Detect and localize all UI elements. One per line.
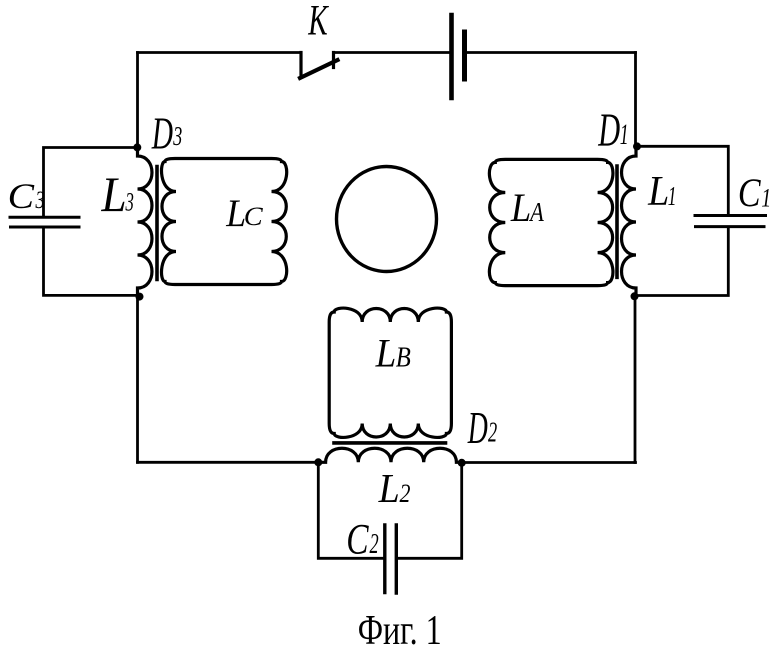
node L2 left (314, 458, 322, 466)
svg-text:L: L (375, 331, 397, 376)
winding Lc (162, 159, 287, 285)
wire right vertical bottom (634, 296, 637, 462)
label L3 (100, 168, 126, 222)
node D3 (133, 143, 141, 151)
wire C1 branch upper (637, 146, 728, 214)
svg-text:D: D (151, 109, 173, 159)
label L2 (378, 466, 400, 512)
svg-text:B: B (396, 341, 411, 373)
wire C3 branch upper (44, 148, 138, 217)
label C1 (738, 172, 762, 216)
winding Lb (329, 308, 451, 437)
label C3 (8, 176, 35, 216)
label D2 (467, 404, 488, 453)
wire C3 branch lower (44, 229, 140, 296)
wire bottom-right segment (462, 461, 636, 464)
battery (452, 15, 465, 98)
svg-text:2: 2 (488, 418, 497, 449)
svg-text:1: 1 (668, 181, 677, 211)
switch K (300, 53, 338, 79)
node L2 right (458, 459, 466, 467)
inductor L1 (622, 146, 636, 296)
svg-text:3: 3 (125, 187, 134, 217)
winding La (489, 159, 613, 285)
node bottom-left (136, 293, 144, 301)
label D1 (597, 104, 620, 156)
label Lb (375, 331, 397, 376)
inductor L3 (138, 148, 152, 298)
transformer core bottom (334, 441, 446, 445)
svg-text:C: C (8, 176, 35, 216)
svg-text:A: A (528, 198, 544, 228)
svg-text:L: L (378, 466, 400, 512)
wire right vertical top (634, 53, 637, 147)
svg-text:Фиг. 1: Фиг. 1 (358, 607, 442, 649)
label Lc (225, 191, 246, 235)
svg-text:C: C (346, 516, 369, 563)
svg-text:D: D (597, 104, 620, 156)
svg-text:L: L (647, 167, 669, 215)
svg-text:L: L (510, 186, 531, 230)
wire C2 branch right (397, 463, 462, 558)
label K (307, 0, 329, 44)
svg-text:C: C (244, 202, 264, 231)
label La (510, 186, 531, 230)
node bottom-right (631, 292, 639, 300)
svg-text:D: D (467, 404, 488, 453)
label C2 (346, 516, 369, 563)
inductor L2 (318, 448, 461, 462)
capacitor C1 (695, 216, 766, 227)
svg-text:L: L (100, 168, 126, 222)
wire top-left segment (138, 51, 302, 54)
wire battery-to-right (466, 51, 636, 54)
wire switch-to-battery (334, 51, 451, 54)
node D1 (633, 142, 641, 150)
capacitor C3 (10, 217, 79, 227)
svg-text:1: 1 (761, 184, 771, 213)
svg-text:2: 2 (400, 479, 411, 508)
label caption Fig.1 (358, 607, 442, 654)
wire C2 branch left (318, 462, 383, 558)
label L1 (647, 167, 669, 215)
svg-text:1: 1 (620, 120, 629, 151)
label D3 (151, 109, 173, 159)
svg-text:2: 2 (370, 529, 379, 560)
wire bottom-left segment (138, 461, 319, 464)
svg-text:C: C (738, 172, 762, 216)
rotor circle (337, 167, 437, 272)
wire C1 branch lower (635, 228, 729, 295)
svg-text:3: 3 (35, 185, 45, 214)
transformer core right (615, 166, 619, 277)
wire left vertical bottom (136, 297, 139, 462)
transformer core left (155, 167, 159, 280)
svg-text:3: 3 (172, 121, 182, 152)
wire left vertical top (136, 53, 139, 148)
svg-text:K: K (307, 0, 329, 44)
capacitor C2 (385, 525, 397, 593)
